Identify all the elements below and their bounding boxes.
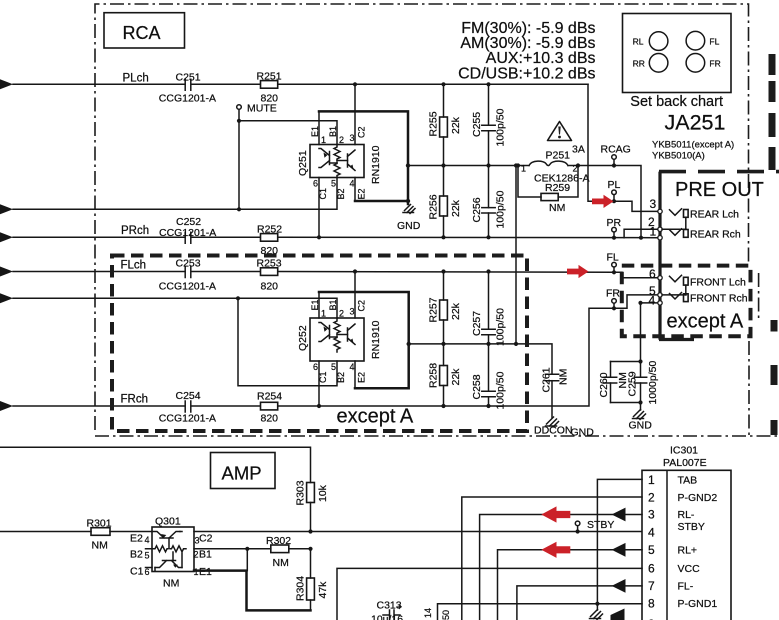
svg-text:820: 820 bbox=[261, 413, 279, 425]
svg-text:7: 7 bbox=[648, 579, 655, 593]
svg-text:Q251: Q251 bbox=[297, 150, 309, 176]
red arrow FL bbox=[567, 265, 589, 278]
svg-text:100p/50: 100p/50 bbox=[495, 308, 507, 346]
svg-text:Q252: Q252 bbox=[297, 325, 309, 351]
resistor R256 bbox=[428, 166, 463, 238]
svg-text:C2: C2 bbox=[199, 533, 213, 545]
svg-text:B1: B1 bbox=[328, 126, 338, 137]
svg-text:6: 6 bbox=[648, 562, 655, 576]
except A dashed box (main lower cell) bbox=[112, 256, 527, 432]
svg-text:6: 6 bbox=[649, 267, 656, 281]
transistor Q251 (RN1910 dual) bbox=[297, 84, 382, 237]
wire pin4 gnd branch bbox=[641, 302, 660, 304]
svg-text:R301: R301 bbox=[87, 518, 112, 530]
wire pin6 bbox=[337, 568, 642, 620]
svg-text:E2: E2 bbox=[357, 372, 367, 383]
svg-text:B1: B1 bbox=[328, 299, 338, 310]
IC301 connector box bbox=[642, 445, 731, 620]
svg-text:P-GND2: P-GND2 bbox=[678, 492, 718, 504]
svg-text:Set back chart: Set back chart bbox=[630, 94, 723, 110]
svg-text:1: 1 bbox=[194, 567, 199, 577]
svg-text:NM: NM bbox=[549, 202, 565, 214]
PRE OUT connector box bbox=[659, 172, 779, 340]
wire mute B1 branch bbox=[239, 121, 337, 145]
svg-text:E1: E1 bbox=[310, 299, 320, 310]
svg-text:22k: 22k bbox=[450, 116, 462, 134]
svg-text:C1: C1 bbox=[318, 371, 328, 383]
svg-text:100p/50: 100p/50 bbox=[495, 108, 507, 146]
resistor R252 bbox=[257, 224, 282, 258]
svg-text:R256: R256 bbox=[428, 194, 440, 219]
resistor R253 bbox=[257, 258, 282, 293]
ground (C259) bbox=[629, 410, 653, 432]
svg-text:AUX:+10.3 dBs: AUX:+10.3 dBs bbox=[486, 50, 596, 67]
svg-text:PAL007E: PAL007E bbox=[663, 457, 707, 469]
wire PLch drop to PL bbox=[588, 84, 659, 211]
jack REAR Lch bbox=[670, 209, 740, 230]
svg-text:AMP: AMP bbox=[222, 463, 262, 484]
section border dash-dot box (RCA/top section) bbox=[95, 4, 779, 436]
svg-text:14: 14 bbox=[423, 608, 433, 618]
resistor R303 bbox=[295, 480, 330, 531]
svg-text:1000p/50: 1000p/50 bbox=[647, 361, 659, 405]
svg-text:C2: C2 bbox=[357, 300, 367, 312]
svg-text:1: 1 bbox=[650, 225, 657, 239]
svg-text:820: 820 bbox=[261, 281, 279, 293]
connector JA251 title bbox=[652, 111, 734, 162]
svg-text:FR: FR bbox=[606, 288, 620, 300]
svg-text:RCA: RCA bbox=[123, 23, 161, 43]
svg-text:3: 3 bbox=[650, 197, 657, 211]
svg-text:RN1910: RN1910 bbox=[370, 145, 382, 184]
svg-text:R303: R303 bbox=[295, 480, 307, 505]
svg-text:STBY: STBY bbox=[587, 519, 614, 531]
level text block FM/AM/AUX/CD bbox=[458, 20, 595, 83]
node FL bbox=[607, 252, 619, 275]
svg-text:FLch: FLch bbox=[121, 260, 147, 272]
svg-text:10u/16: 10u/16 bbox=[371, 614, 403, 620]
thick dashed right-edge bar bbox=[772, 54, 774, 435]
svg-text:3: 3 bbox=[350, 133, 355, 143]
svg-text:PRch: PRch bbox=[121, 225, 149, 237]
svg-text:P251: P251 bbox=[546, 150, 571, 162]
svg-text:3: 3 bbox=[648, 508, 655, 522]
svg-text:R304: R304 bbox=[295, 576, 307, 601]
svg-text:C257: C257 bbox=[471, 311, 483, 336]
capacitor C251 bbox=[159, 71, 216, 104]
svg-text:C1: C1 bbox=[130, 566, 144, 578]
internals: zigzag resistors bbox=[334, 145, 340, 178]
svg-text:50: 50 bbox=[441, 610, 451, 620]
svg-text:4: 4 bbox=[145, 535, 150, 545]
AMP label box bbox=[211, 453, 276, 489]
resistor R257 bbox=[428, 272, 463, 344]
svg-text:YKB5011(except A): YKB5011(except A) bbox=[652, 140, 734, 151]
resistor R251 bbox=[257, 71, 282, 105]
resistor R304 bbox=[295, 549, 330, 611]
svg-text:R257: R257 bbox=[428, 297, 440, 322]
svg-text:1: 1 bbox=[321, 135, 326, 145]
svg-text:C259: C259 bbox=[627, 371, 639, 396]
svg-text:R254: R254 bbox=[257, 391, 282, 403]
svg-text:6: 6 bbox=[313, 362, 318, 372]
node FR bbox=[606, 288, 620, 311]
jack FRONT Rch bbox=[670, 293, 748, 305]
svg-text:B1: B1 bbox=[199, 549, 212, 561]
wire pin1 tab gnd bbox=[597, 479, 642, 603]
node PLch junctions bbox=[353, 82, 357, 86]
resistor R259 (fuse bypass) bbox=[518, 166, 578, 215]
svg-text:4: 4 bbox=[350, 362, 355, 372]
capacitor C261 bbox=[541, 367, 570, 417]
red arrow PL bbox=[592, 195, 614, 208]
svg-text:P-GND1: P-GND1 bbox=[678, 598, 718, 610]
svg-text:47k: 47k bbox=[317, 581, 329, 599]
resistor R254 bbox=[257, 391, 282, 425]
ground pin8 bbox=[590, 604, 603, 620]
svg-text:RCAG: RCAG bbox=[601, 144, 631, 156]
svg-text:5: 5 bbox=[331, 362, 336, 372]
wire top rail to R303 bbox=[0, 447, 311, 482]
svg-text:PR: PR bbox=[607, 217, 622, 229]
node PL bbox=[608, 179, 621, 203]
wire PR jog to pin2 bbox=[624, 229, 659, 237]
capacitor C257 bbox=[471, 272, 507, 347]
capacitor C260 / C259 pair bbox=[598, 359, 659, 410]
svg-text:FL: FL bbox=[607, 252, 619, 264]
jack FRONT Lch bbox=[670, 275, 746, 295]
svg-text:NM: NM bbox=[92, 540, 108, 552]
svg-text:CCG1201-A: CCG1201-A bbox=[159, 413, 216, 425]
capacitor C256 bbox=[471, 166, 507, 238]
svg-text:CD/USB:+10.2 dBs: CD/USB:+10.2 dBs bbox=[458, 66, 595, 83]
svg-text:E1: E1 bbox=[199, 566, 212, 578]
wire PLch bbox=[13, 83, 588, 85]
wire pin3 bbox=[480, 515, 642, 620]
capacitor C258 bbox=[471, 344, 507, 410]
svg-text:2: 2 bbox=[194, 550, 199, 560]
svg-text:6: 6 bbox=[145, 567, 150, 577]
svg-text:NM: NM bbox=[163, 578, 179, 590]
wire B1 row bbox=[194, 548, 311, 550]
svg-text:R302: R302 bbox=[266, 535, 291, 547]
wire rail drop to lower cell bbox=[515, 166, 517, 344]
svg-text:RR: RR bbox=[633, 58, 645, 68]
svg-text:FRONT Rch: FRONT Rch bbox=[690, 293, 748, 305]
arrowhead pin3 bbox=[612, 508, 626, 522]
wire main amp rail bbox=[0, 531, 642, 533]
svg-text:C258: C258 bbox=[471, 374, 483, 399]
internal transistor T2 bbox=[348, 150, 356, 171]
svg-text:DDCON: DDCON bbox=[534, 425, 573, 437]
svg-text:R258: R258 bbox=[428, 363, 440, 388]
node RCAG bbox=[601, 144, 631, 168]
svg-text:TAB: TAB bbox=[678, 474, 698, 486]
svg-text:22k: 22k bbox=[450, 302, 462, 320]
red arrow pin5 bbox=[541, 542, 570, 558]
svg-text:IC301: IC301 bbox=[670, 445, 698, 457]
wire pin2 bbox=[462, 497, 642, 620]
svg-text:5: 5 bbox=[145, 551, 150, 561]
except A dashed box (front jacks) bbox=[622, 266, 751, 337]
wire PRch bbox=[13, 236, 659, 238]
STBY terminal bbox=[575, 519, 614, 534]
svg-text:R252: R252 bbox=[257, 224, 282, 236]
resistor R255 bbox=[428, 84, 463, 165]
svg-text:10k: 10k bbox=[317, 484, 329, 502]
svg-text:PRE OUT: PRE OUT bbox=[675, 179, 764, 201]
wire FR jog to pin5 bbox=[614, 295, 659, 308]
svg-text:REAR Rch: REAR Rch bbox=[690, 229, 741, 241]
input arrow PLch bbox=[0, 79, 13, 89]
internals bbox=[152, 546, 186, 552]
pin stubs bbox=[319, 84, 355, 237]
svg-text:GND: GND bbox=[397, 220, 421, 232]
wire lower gnd rail bbox=[409, 344, 552, 374]
wire pin7 bbox=[517, 586, 642, 620]
svg-text:FR: FR bbox=[709, 58, 720, 68]
svg-text:2: 2 bbox=[339, 135, 344, 145]
svg-text:5: 5 bbox=[648, 543, 655, 557]
svg-text:GND: GND bbox=[571, 427, 595, 439]
svg-text:C253: C253 bbox=[176, 258, 201, 270]
wire pin5 bbox=[498, 550, 643, 620]
transistor Q252 (RN1910 dual) bbox=[297, 272, 382, 407]
svg-text:FL-: FL- bbox=[678, 581, 694, 593]
jack REAR Rch bbox=[670, 229, 741, 241]
fuse P251 bbox=[516, 144, 590, 185]
RCA label box bbox=[104, 13, 185, 48]
svg-text:except A: except A bbox=[337, 406, 414, 428]
Set back chart box bbox=[623, 14, 732, 111]
svg-text:+: + bbox=[397, 602, 402, 612]
svg-text:B2: B2 bbox=[130, 549, 143, 561]
svg-text:R253: R253 bbox=[257, 258, 282, 270]
node PR bbox=[607, 217, 622, 240]
svg-text:STBY: STBY bbox=[678, 521, 705, 533]
svg-text:6: 6 bbox=[313, 179, 318, 189]
capacitor C254 bbox=[159, 390, 216, 425]
svg-text:C1: C1 bbox=[318, 188, 328, 200]
svg-text:E1: E1 bbox=[310, 126, 320, 137]
svg-text:VCC: VCC bbox=[678, 563, 701, 575]
svg-text:22k: 22k bbox=[450, 368, 462, 386]
svg-text:YKB5010(A): YKB5010(A) bbox=[652, 151, 705, 162]
svg-text:RL-: RL- bbox=[678, 509, 695, 521]
pin rows bbox=[648, 473, 655, 611]
warning triangle bbox=[548, 122, 572, 141]
red arrow pin3 bbox=[541, 506, 570, 522]
capacitor C255 bbox=[471, 84, 507, 165]
capacitor C313 (cut off at bottom) bbox=[371, 600, 403, 620]
svg-text:C255: C255 bbox=[471, 112, 483, 137]
svg-text:22k: 22k bbox=[450, 199, 462, 217]
svg-text:GND: GND bbox=[629, 420, 653, 432]
svg-text:4: 4 bbox=[350, 179, 355, 189]
svg-text:8: 8 bbox=[648, 597, 655, 611]
svg-text:1: 1 bbox=[648, 473, 655, 487]
svg-text:R255: R255 bbox=[428, 111, 440, 136]
svg-text:RL: RL bbox=[633, 37, 644, 47]
svg-text:R251: R251 bbox=[257, 71, 282, 83]
svg-text:2: 2 bbox=[339, 309, 344, 319]
wire E1 to bottom (thick) bbox=[194, 571, 311, 611]
svg-text:PLch: PLch bbox=[123, 73, 149, 85]
resistor R258 bbox=[428, 344, 463, 406]
svg-text:C251: C251 bbox=[176, 71, 201, 83]
svg-text:CCG1201-A: CCG1201-A bbox=[159, 93, 216, 105]
resistor R302 bbox=[266, 535, 291, 569]
ground DDCON bbox=[534, 417, 594, 439]
wire rcag rail bbox=[408, 166, 641, 238]
svg-text:4: 4 bbox=[648, 526, 655, 540]
svg-text:3A: 3A bbox=[572, 144, 585, 156]
svg-text:100p/50: 100p/50 bbox=[495, 190, 507, 228]
svg-text:C254: C254 bbox=[176, 390, 201, 402]
svg-text:REAR Lch: REAR Lch bbox=[690, 209, 739, 221]
svg-text:R259: R259 bbox=[545, 182, 570, 194]
svg-text:NM: NM bbox=[558, 369, 570, 385]
svg-text:FRch: FRch bbox=[121, 394, 148, 406]
svg-text:E2: E2 bbox=[130, 533, 143, 545]
svg-text:except A: except A bbox=[667, 311, 744, 333]
svg-text:B2: B2 bbox=[336, 188, 346, 199]
wire mute line (to B2) bbox=[13, 178, 337, 210]
svg-text:RN1910: RN1910 bbox=[370, 320, 382, 359]
resistor R301 bbox=[87, 518, 112, 552]
svg-text:E2: E2 bbox=[357, 188, 367, 199]
wire lower mute line bbox=[13, 298, 337, 318]
svg-text:NM: NM bbox=[273, 557, 289, 569]
svg-text:C261: C261 bbox=[541, 367, 553, 392]
wire Q251 emitters to gnd (thick) bbox=[319, 111, 408, 204]
svg-text:C260: C260 bbox=[598, 372, 610, 397]
svg-text:CCG1201-A: CCG1201-A bbox=[159, 281, 216, 293]
svg-text:Q301: Q301 bbox=[155, 516, 181, 528]
svg-text:FRONT Lch: FRONT Lch bbox=[690, 277, 746, 289]
svg-text:1: 1 bbox=[521, 164, 526, 174]
svg-text:3: 3 bbox=[350, 307, 355, 317]
capacitor C253 bbox=[159, 258, 216, 293]
arrowhead pin9 (partial at page bottom) bbox=[611, 609, 625, 620]
svg-text:FL: FL bbox=[709, 37, 719, 47]
svg-text:5: 5 bbox=[331, 179, 336, 189]
capacitor C252 bbox=[159, 216, 216, 243]
svg-text:2: 2 bbox=[648, 491, 655, 505]
wire FL jog to pin6 bbox=[614, 272, 659, 278]
svg-text:RL+: RL+ bbox=[678, 545, 698, 557]
svg-text:MUTE: MUTE bbox=[247, 103, 277, 115]
wire pin8 bbox=[438, 604, 643, 620]
wire Q252 emitters (thick) bbox=[319, 292, 409, 388]
svg-text:1: 1 bbox=[321, 309, 326, 319]
svg-text:4: 4 bbox=[649, 294, 656, 308]
svg-text:C256: C256 bbox=[471, 197, 483, 222]
svg-text:JA251: JA251 bbox=[665, 111, 726, 135]
transistor Q301 bbox=[130, 516, 213, 590]
svg-text:B2: B2 bbox=[336, 372, 346, 383]
svg-text:PL: PL bbox=[608, 179, 621, 191]
svg-text:100p/50: 100p/50 bbox=[495, 371, 507, 409]
MUTE terminal bbox=[237, 103, 277, 212]
svg-text:CCG1201-A: CCG1201-A bbox=[159, 227, 216, 239]
ground (Q251) bbox=[397, 205, 421, 233]
svg-text:C2: C2 bbox=[357, 126, 367, 138]
internal transistor T1 bbox=[319, 149, 330, 168]
